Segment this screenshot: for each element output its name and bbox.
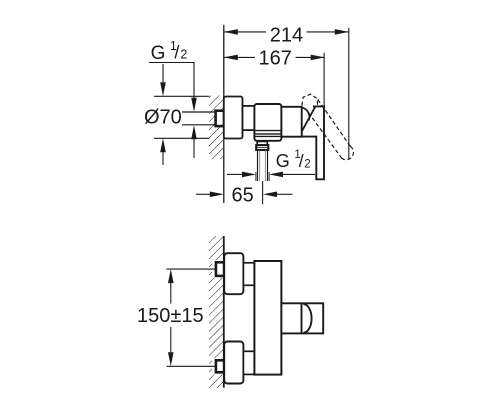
wall hatching (bottom view) — [209, 236, 224, 388]
handle divider line — [301, 303, 303, 333]
leader arrow (down to pipe top) — [191, 98, 197, 112]
mixer body block (top view) — [254, 104, 281, 141]
extension line lower (150 dim) — [167, 365, 216, 367]
lever handle base (dashed alternate position) — [302, 94, 318, 106]
svg-text:150±15: 150±15 — [137, 305, 204, 327]
lower wall fitting (bottom view) — [216, 360, 224, 372]
supply pipe (in wall) — [182, 111, 224, 113]
cartridge dome arc — [302, 108, 309, 121]
O70 lower arrow — [162, 152, 164, 165]
dimension 167 arrow left — [224, 55, 238, 61]
wall fitting (top view) — [216, 111, 224, 126]
escutcheon (top view) — [224, 97, 243, 139]
body ring line 3 — [254, 135, 281, 137]
handle (bottom view) — [281, 303, 323, 333]
svg-text:2: 2 — [304, 159, 310, 171]
svg-text:65: 65 — [231, 185, 253, 207]
label G 1/2 (top left) — [151, 39, 188, 64]
dimension 214 line — [224, 31, 349, 33]
G1/2 bottom left arrow — [227, 173, 243, 175]
extension line upper (150 dim) — [167, 268, 216, 270]
lever arm lower edge (dashed) — [307, 110, 342, 158]
upper step block — [243, 263, 254, 286]
dimension 214 arrow right — [335, 29, 349, 35]
svg-text:G: G — [276, 151, 290, 171]
lever arm end cap (dashed) — [342, 146, 354, 159]
dimension 214 arrow left — [224, 29, 238, 35]
body ring line 2 — [254, 133, 281, 135]
outlet stub — [257, 141, 267, 145]
outlet nut band — [256, 145, 268, 150]
label G 1/2 (bottom of top view) — [276, 149, 311, 171]
upper escutcheon (bottom view) — [224, 253, 243, 294]
handle end arc — [303, 304, 311, 333]
hatch hole at lower fitting — [212, 358, 224, 374]
wall line (bottom view) — [223, 236, 225, 388]
lower escutcheon (bottom view) — [224, 342, 243, 384]
thread outer ticks — [255, 172, 257, 181]
dimension 65 right arrow — [277, 193, 292, 195]
O70 upper arrow — [162, 64, 164, 82]
extension line for 167 — [323, 53, 325, 107]
dimension 65 left arrow — [196, 193, 210, 195]
connection nut (top view) — [243, 106, 255, 130]
svg-text:2: 2 — [180, 47, 187, 61]
dimension 150 line lower segment — [170, 327, 172, 352]
leader line for G 1/2 top — [149, 63, 194, 101]
outlet pipe — [257, 150, 259, 181]
dimension O70 extension bottom — [154, 137, 209, 139]
svg-text:/: / — [174, 42, 179, 62]
wall line (top view) — [223, 25, 225, 203]
G1/2 bottom right arrow — [282, 173, 315, 175]
pipe lower arrow (G1/2) — [193, 139, 195, 158]
dimension O70 extension top — [154, 95, 209, 97]
hatch hole at upper fitting — [212, 260, 224, 278]
dimension 167 line — [224, 56, 325, 58]
extension line for 214 — [348, 28, 350, 159]
lower step block — [243, 351, 254, 374]
pipe centre extension line — [262, 181, 264, 204]
lever underside slant — [302, 106, 316, 131]
valve housing (top view) — [281, 107, 301, 137]
upper wall fitting (bottom view) — [216, 262, 224, 276]
body ring line 1 — [254, 130, 281, 132]
svg-text:167: 167 — [259, 48, 292, 70]
mixer body (bottom view) — [254, 261, 281, 375]
dimension 150 line upper segment — [170, 283, 172, 304]
lever handle (solid position) — [302, 106, 324, 179]
outlet nut band inner line — [256, 147, 268, 149]
svg-text:G: G — [151, 43, 166, 64]
wall hatching (top view) — [209, 96, 223, 160]
outlet pipe thread inner lines — [259, 150, 261, 181]
svg-text:/: / — [299, 151, 304, 171]
svg-text:Ø70: Ø70 — [144, 107, 182, 129]
svg-text:214: 214 — [270, 25, 303, 47]
lever arm upper edge (dashed) — [318, 100, 351, 147]
dimension 167 arrow right — [311, 55, 325, 61]
